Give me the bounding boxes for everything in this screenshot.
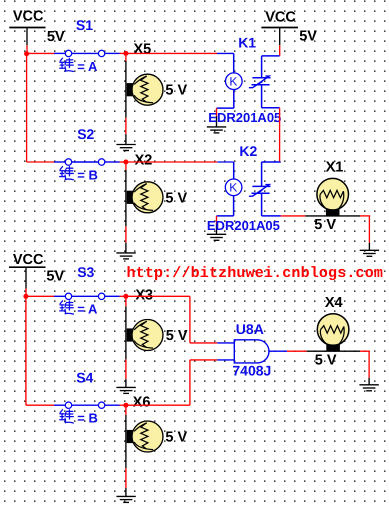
svg-text:X2: X2 [135, 153, 153, 169]
svg-text:VCC: VCC [265, 10, 296, 26]
and-gate U8A body [234, 340, 269, 363]
junction node X6 [123, 403, 128, 408]
wire red VCC to S3 [26, 295, 55, 297]
wire red bottom VCC down to S4 [25, 296, 27, 405]
switch S4 contact circles and blade [54, 402, 120, 408]
wire node X2 to relay K2 coil [126, 161, 234, 163]
wire node X3 down to lamp X3 [125, 296, 127, 359]
svg-text:5 V: 5 V [315, 353, 337, 369]
wire node X3 to gate input A [126, 296, 234, 343]
wire VCC bottom to node stem [25, 289, 27, 297]
svg-text:http://bitzhuwei.cnblogs.com: http://bitzhuwei.cnblogs.com [127, 265, 384, 282]
svg-text:5 V: 5 V [165, 83, 187, 99]
ground under K1 coil [207, 127, 226, 133]
wire red node A down to S2 [26, 54, 28, 162]
power VCC bottom-left symbol [9, 267, 46, 288]
junction node X3 [123, 294, 128, 299]
svg-text:X4: X4 [325, 295, 343, 311]
svg-text:5 V: 5 V [166, 328, 188, 344]
svg-text:5 V: 5 V [165, 190, 187, 206]
relay K2 coil [217, 162, 242, 216]
ground under lamp X4 [359, 385, 378, 391]
ground under lamp X5 [116, 145, 135, 151]
wire K2 contact to lamp X1 [281, 215, 371, 217]
junction node X5 [123, 51, 128, 56]
lamp X1 base [326, 208, 340, 216]
label key = B for S2 [60, 167, 74, 180]
svg-text:= B: = B [77, 411, 98, 426]
label key = A for S3 [60, 301, 74, 314]
svg-text:5V: 5V [46, 269, 64, 285]
lamp X1 bulb [317, 178, 349, 210]
wire lamp X3 to ground [125, 359, 127, 387]
wire S4 to node X6 [120, 404, 126, 406]
wire lamp X4 to ground [368, 351, 370, 385]
lamp X4 bulb [317, 314, 349, 346]
wire S1 to node X5 [120, 52, 126, 54]
wire lamp X5 to ground [125, 118, 127, 145]
ground under lamp X3 [116, 387, 135, 393]
switch S3 contact circles and blade [54, 293, 120, 299]
svg-text:5 V: 5 V [165, 429, 187, 445]
svg-text:= A: = A [77, 59, 98, 74]
svg-text:K2: K2 [239, 143, 257, 159]
wire K1 coil to ground [216, 108, 218, 127]
svg-text:U8A: U8A [236, 321, 264, 337]
svg-text:EDR201A05: EDR201A05 [207, 218, 280, 233]
ground under K2 coil [207, 234, 226, 240]
wire node X5 down to lamp X5 [125, 53, 127, 118]
power VCC top-right symbol [261, 28, 298, 46]
lamp X6 base [127, 430, 135, 443]
relay K1 contact [249, 56, 280, 108]
wire VCC top-left to node A red stem [26, 45, 28, 53]
relay K1 coil [217, 53, 243, 108]
svg-text:S3: S3 [77, 264, 94, 280]
lamp X5 base [127, 83, 135, 96]
svg-text:X1: X1 [326, 160, 344, 176]
switch S2 contact circles and blade [54, 159, 120, 165]
wire S3 to node X3 [120, 295, 126, 297]
svg-text:K: K [229, 181, 237, 195]
svg-text:X6: X6 [133, 394, 151, 410]
wire red to S4 [26, 404, 55, 406]
wire node X5 to relay K1 coil [126, 52, 234, 54]
relay K2 contact [249, 162, 281, 216]
wire K2 coil to ground [216, 216, 218, 234]
wire node X6 down to lamp X6 [125, 405, 127, 468]
svg-text:= B: = B [77, 167, 98, 182]
svg-text:K: K [229, 75, 237, 89]
svg-text:K1: K1 [238, 34, 256, 50]
svg-text:X5: X5 [134, 41, 152, 57]
wire node X6 to gate input B [126, 360, 234, 405]
svg-text:VCC: VCC [13, 8, 44, 24]
svg-text:VCC: VCC [13, 252, 44, 268]
ground under lamp X1 [360, 250, 379, 256]
wire VCC top-right down to K1 contact [279, 45, 281, 56]
wire S2 to node X2 [120, 161, 126, 163]
lamp X4 base [326, 344, 340, 352]
wire gate output to lamp X4 [269, 350, 370, 352]
label key = A for S1 [60, 58, 74, 71]
wire red VCC to S1 [27, 52, 55, 54]
svg-text:S2: S2 [77, 126, 94, 142]
lamp X6 bulb [132, 421, 163, 452]
lamp X2 base [127, 191, 135, 204]
svg-text:5V: 5V [47, 29, 65, 45]
wire red to S2 [27, 161, 55, 163]
svg-text:S1: S1 [76, 17, 93, 33]
lamp X5 bulb [132, 74, 163, 105]
lamp X3 base [127, 328, 135, 341]
svg-text:7408J: 7408J [232, 362, 271, 378]
svg-text:5V: 5V [299, 28, 317, 44]
svg-text:= A: = A [77, 302, 98, 317]
svg-text:5 V: 5 V [314, 217, 336, 233]
lamp X3 bulb [132, 320, 163, 351]
junction node X2 [123, 160, 128, 165]
svg-text:S4: S4 [76, 370, 93, 386]
wire node X2 down to lamp X2 [125, 162, 127, 226]
wire lamp X2 to ground [125, 226, 127, 253]
junction bottom VCC node [23, 294, 28, 299]
wire K1 contact to K2 contact red bus [279, 108, 281, 162]
junction node A top-left [24, 51, 29, 56]
label key = B for S4 [60, 410, 74, 423]
lamp X2 bulb [132, 182, 163, 213]
wire lamp X6 to ground [125, 468, 127, 496]
ground under lamp X2 [116, 253, 135, 259]
power VCC top-left symbol [9, 28, 45, 46]
svg-text:EDR201A05: EDR201A05 [208, 110, 281, 125]
wire lamp X1 to ground [368, 216, 370, 250]
ground under lamp X6 [116, 496, 135, 502]
switch S1 contact circles and blade [54, 50, 120, 56]
